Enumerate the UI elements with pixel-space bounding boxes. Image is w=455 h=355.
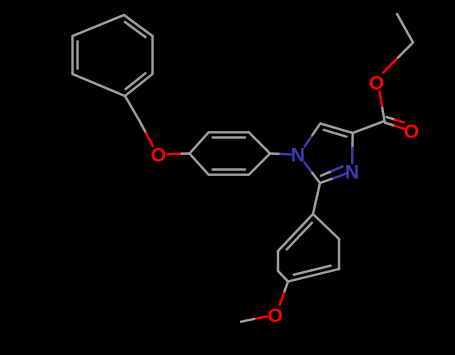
wire bond O2-CH2 xyxy=(383,58,398,73)
wire bottom-aryl edge T-UR xyxy=(313,214,339,239)
wire benzyl ring edge B-LL xyxy=(73,74,126,96)
wire bond C5=C4 main xyxy=(320,124,352,134)
svg-text:N: N xyxy=(291,145,305,167)
wire bond aryl-O4 xyxy=(284,282,288,294)
svg-text:O: O xyxy=(369,72,384,94)
wire left-phenylene edge TL-TR xyxy=(209,131,249,133)
wire bond CH2-O1 xyxy=(139,120,146,133)
wire benzyl ring edge LL-UL xyxy=(71,36,73,74)
wire bond C2-aryl xyxy=(313,183,320,214)
wire bottom-aryl edge LR-B xyxy=(288,269,339,282)
wire bond C=O3 inner xyxy=(387,117,396,120)
wire bond N1-C2 xyxy=(305,163,313,173)
wire bond N1-C5 xyxy=(305,135,313,147)
wire bond CH2-CH3 ethyl xyxy=(397,14,413,43)
wire left-phenylene double inner BL-BR xyxy=(213,168,245,170)
wire benzyl ring edge T-UR xyxy=(124,15,153,36)
wire bond O1-ring xyxy=(167,152,181,155)
wire benzyl ring edge LR-B xyxy=(125,74,153,96)
wire left-phenylene edge TR-R xyxy=(249,132,270,153)
wire bottom-aryl edge B-LL xyxy=(278,271,288,282)
wire bond Cester-O2 xyxy=(382,106,385,121)
wire bond C=O3 main xyxy=(385,123,395,126)
wire benzyl ring edge UR-LR xyxy=(151,36,153,74)
svg-text:O: O xyxy=(404,121,419,143)
wire bond C5=C4 inner xyxy=(324,130,347,137)
wire benzyl double bond inner UL-LL xyxy=(76,41,78,68)
wire benzyl ring edge UL-T xyxy=(73,15,125,36)
wire bond C2=N3 inner xyxy=(321,171,332,176)
svg-text:O: O xyxy=(151,144,166,166)
wire left-phenylene double inner TL-TR xyxy=(213,136,245,138)
wire benzyl double bond inner B-LR xyxy=(126,73,146,89)
wire bottom-aryl edge UL-T xyxy=(278,214,313,251)
wire bond ring-N1 xyxy=(270,152,281,155)
wire left-phenylene edge R-BR xyxy=(249,154,270,175)
wire bond C4-Cester xyxy=(353,121,385,133)
wire bond O4-CH3 methyl xyxy=(254,316,267,319)
wire bottom-aryl double inner LR-B xyxy=(294,266,331,275)
wire bond C4-N3 xyxy=(351,133,354,148)
wire bottom-aryl edge LL-UL xyxy=(277,251,279,271)
wire left-phenylene edge BL-L xyxy=(190,154,209,175)
wire benzyl double bond inner T-UR xyxy=(125,22,146,37)
wire bond benzyl-CH2 xyxy=(125,96,139,120)
wire bottom-aryl double inner UL-T xyxy=(287,223,312,250)
wire bottom-aryl edge UR-LR xyxy=(338,239,340,269)
wire bond C2=N3 main xyxy=(320,178,333,183)
wire left-phenylene edge BR-BL xyxy=(209,173,249,175)
wire left-phenylene edge L-TL xyxy=(190,132,209,153)
svg-text:O: O xyxy=(268,305,283,327)
